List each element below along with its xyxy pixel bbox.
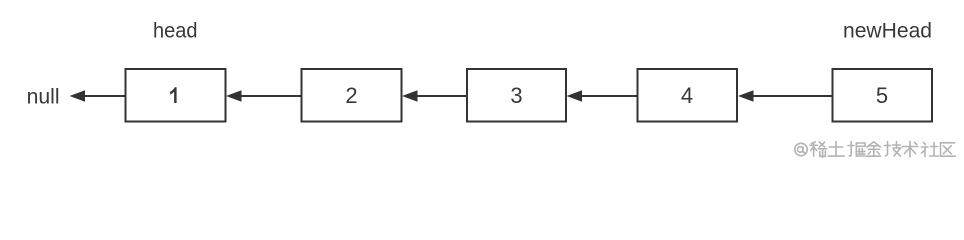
node 4 box [638, 69, 738, 122]
arrow node4 to node3 [568, 91, 638, 101]
svg-text:5: 5 [876, 83, 888, 108]
watermark char tu 土 [828, 142, 844, 157]
svg-text:null: null [27, 85, 60, 108]
arrow node1 to null [71, 91, 126, 101]
watermark @稀土掘金技术社区 (drawn glyphs) [795, 141, 955, 157]
watermark char jue 掘 [848, 142, 866, 157]
arrow node5 to node4 [740, 91, 833, 101]
arrow node3 to node2 [404, 91, 468, 101]
watermark char she 社 [922, 143, 939, 157]
svg-text:2: 2 [345, 83, 357, 108]
node 3 box [467, 69, 566, 122]
watermark char xi 稀 [810, 142, 827, 157]
node 5 box [833, 69, 933, 122]
node 1 value [170, 87, 177, 103]
arrow node2 to node1 [228, 91, 302, 101]
svg-text:head: head [153, 20, 198, 43]
svg-text:newHead: newHead [843, 19, 932, 42]
watermark at-sign [795, 143, 807, 155]
node 1 box [126, 69, 226, 122]
svg-text:3: 3 [510, 83, 522, 108]
node 2 box [302, 69, 402, 122]
watermark char qu 区 [941, 143, 956, 156]
watermark char shu 术 [902, 141, 918, 156]
svg-text:4: 4 [681, 83, 693, 108]
watermark char jin 金 [867, 142, 881, 156]
watermark char ji 技 [885, 142, 901, 157]
